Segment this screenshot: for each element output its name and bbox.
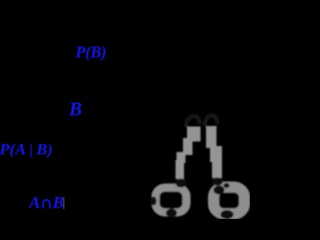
- ring 2 (right): [214, 187, 245, 214]
- black dip ring2 top band: [224, 183, 230, 188]
- junction blob left: [176, 179, 187, 188]
- svg-text:B: B: [68, 100, 82, 121]
- dark arc left (top of left chain): [186, 116, 201, 127]
- right chain: [206, 126, 222, 178]
- svg-text:A∩B: A∩B: [28, 193, 64, 212]
- svg-text:P(A | B): P(A | B): [0, 140, 53, 159]
- black notch ring1 left side: [151, 197, 157, 206]
- ring 1 (left): [156, 188, 187, 213]
- black notch ring1 bottom: [166, 209, 177, 218]
- faint cursor line: [63, 197, 65, 209]
- svg-text:P(B): P(B): [75, 43, 107, 62]
- black notch ring2 bottom: [221, 210, 234, 219]
- left chain: [176, 127, 201, 180]
- junction blob right: [212, 178, 223, 186]
- black notch ring2 inner top-left: [214, 186, 225, 195]
- dark arc right (top of right chain): [205, 115, 218, 126]
